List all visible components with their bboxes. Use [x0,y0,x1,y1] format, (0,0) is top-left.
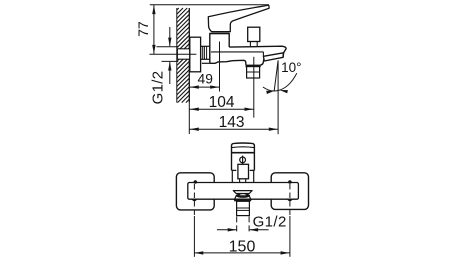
handle top face arc [232,146,254,149]
handle foot left [232,169,237,171]
svg-text:10°: 10° [281,60,301,75]
inlet centerline [150,53,197,55]
shower outlet ledge [246,65,261,68]
faucet body side view [210,34,229,64]
spout flare [234,196,251,200]
escutcheon side view [190,37,201,72]
outlet ext line right [248,216,250,233]
left escutcheon [176,173,214,210]
svg-text:G1/2: G1/2 [253,214,287,231]
svg-text:G1/2: G1/2 [149,71,166,105]
angle arrow left [266,91,274,94]
dimension G12 upper line [169,27,171,46]
dimension G12 front arrows [228,228,237,231]
dimension 77 line [153,5,155,54]
dimension G12 front left tail [217,229,237,231]
union nut flange [202,62,210,64]
top extension line [150,4,269,6]
union nut [201,46,210,59]
shower outlet mid line [247,71,260,73]
svg-text:77: 77 [135,21,151,37]
wall back line [176,8,178,103]
wall hatching [177,8,190,103]
shower outlet body [247,66,260,78]
handle side left lower [231,170,233,182]
dimension 104 arrows [190,108,199,111]
body bar [188,183,299,200]
dimension 143 arrows [190,128,199,131]
diverter stem [250,42,257,47]
handle screw circle [240,157,246,163]
spout dark ring [236,193,250,198]
aerator block [263,53,283,61]
shower outlet axis line [253,57,255,118]
dimension 104 line [190,108,254,110]
cartridge cover stem [240,179,246,183]
lever handle side view [208,5,269,31]
handle screw slot [242,156,244,165]
dimension 49 arrows [190,85,199,88]
right escutcheon [271,173,308,210]
dimension 150 arrows [195,251,204,254]
dimension 77 arrows [152,5,155,14]
spout collar top [233,191,252,194]
handle side right lower [253,170,255,182]
spout underside line [211,51,263,53]
dimension G12 front right tail [249,229,268,231]
outlet ext line left [236,216,238,233]
handle foot right [250,169,255,171]
angle arrow right [280,90,288,93]
outlet cylinder [237,201,250,215]
svg-text:49: 49 [198,71,214,86]
dimension G12 arrows [168,38,171,47]
handle front view [232,143,255,170]
angle ref slanted line [274,60,278,90]
dimension 143 line [190,128,279,130]
left union centerline [193,184,195,216]
body top line [210,33,229,35]
union nut ribs [202,46,204,59]
right union screw [288,180,292,184]
svg-text:143: 143 [219,114,245,131]
inlet pipe through wall [177,49,189,59]
handle band line [232,152,255,154]
casting underside [210,60,246,65]
left union screw [194,180,198,184]
dimension 150 line [194,252,290,254]
spout outline [229,46,286,57]
right union centerline [289,184,291,216]
wall face line [188,8,190,103]
spout flare bottom [234,200,251,202]
svg-text:104: 104 [209,94,235,111]
right union lower bump [287,199,293,201]
dimension G12 lower line [169,62,171,84]
thread top ext line [157,46,179,48]
left union lower bump [192,199,198,201]
cartridge cover [238,164,249,179]
angle arc right tail [277,73,297,91]
wall face ext line [188,103,190,134]
svg-text:150: 150 [229,238,256,255]
thread bottom ext line [162,60,179,62]
spout tip ext line [277,60,279,134]
dimension 49 line [190,86,220,88]
diverter knob [248,27,260,41]
outlet thread lines [237,207,250,209]
angle arc left tail [263,87,277,91]
cartridge axis ext line [219,42,221,92]
